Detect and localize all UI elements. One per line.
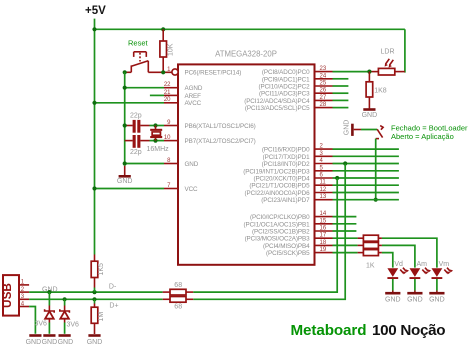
crystal Q1 16MHz (147, 126, 170, 153)
node junction crystal bottom (153, 139, 157, 143)
resistor 1K (c, PB5 to Vd) (358, 250, 382, 270)
op-amp U1 ATMEGA328-20P body (172, 50, 315, 265)
USB connector X1 (0, 275, 19, 316)
resistor 1M (91, 299, 105, 334)
U1 right pin numbers (320, 66, 327, 253)
svg-text:(PCI16/RXD)PD0: (PCI16/RXD)PD0 (262, 147, 310, 154)
svg-text:(PCI11/ADC3)PC3: (PCI11/ADC3)PC3 (259, 91, 310, 98)
node junction 10K top (161, 27, 165, 31)
svg-text:AREF: AREF (185, 93, 202, 100)
pin 10 XTAL2 wire (150, 140, 179, 142)
wire USB GND pin4 (29, 307, 35, 334)
svg-text:PB7(XTAL2/TOSC2/PCI7): PB7(XTAL2/TOSC2/PCI7) (185, 138, 256, 145)
ground symbol (bootloader switch, rotated) (344, 120, 361, 136)
ground symbol (1K8) (362, 110, 378, 120)
svg-text:GND: GND (26, 339, 42, 346)
svg-text:D+: D+ (109, 302, 118, 309)
svg-text:AVCC: AVCC (185, 100, 202, 107)
svg-text:Am: Am (417, 261, 428, 268)
pin 22 AGND wire (125, 87, 178, 89)
node junction 1K5/D- (92, 290, 96, 294)
svg-text:1K8: 1K8 (374, 88, 387, 95)
svg-text:Vd: Vd (394, 261, 403, 268)
resistor 1K8 (366, 72, 387, 109)
wire LDR right vertical x=404.9 (404, 29, 406, 72)
wire D- vertical x=337.2 (193, 178, 337, 292)
svg-text:(PCI8/ADC0)PC0: (PCI8/ADC0)PC0 (262, 69, 310, 76)
svg-text:(PCI0/ICP/CLKO)PB0: (PCI0/ICP/CLKO)PB0 (250, 214, 310, 221)
svg-text:VCC: VCC (185, 186, 199, 193)
svg-text:GND: GND (385, 297, 401, 304)
svg-text:(PCI22/AIN0OC0A)PD6: (PCI22/AIN0OC0A)PD6 (245, 190, 311, 197)
ground symbol (Am) (407, 291, 423, 304)
capacitor 22p C2 (125, 135, 150, 156)
svg-text:Metaboard: Metaboard (291, 322, 367, 339)
svg-text:68: 68 (174, 304, 182, 311)
pin 20 AVCC wire (95, 102, 179, 104)
wires PC1..PC5 stubs (333, 79, 349, 108)
svg-text:16MHz: 16MHz (147, 146, 170, 153)
svg-text:GND: GND (344, 120, 351, 136)
node junction LDR/1K8 (367, 70, 371, 74)
node junction PD7/boot (374, 198, 378, 202)
net label GND (usb) (42, 286, 58, 293)
wire 1K to Vm LED (382, 238, 437, 267)
svg-text:68: 68 (174, 282, 182, 289)
ground labels GNDGNDGND (26, 339, 74, 346)
resistor 10K (reset pull-up) (160, 29, 175, 72)
svg-text:AGND: AGND (185, 85, 203, 92)
svg-text:+5V: +5V (85, 5, 106, 17)
wire D+ vertical x=345.2 (193, 164, 345, 300)
resistor 1K5 (D- pullup) (91, 255, 105, 293)
svg-text:1K: 1K (366, 262, 375, 269)
node junction zener2/D+ (63, 297, 67, 301)
svg-text:22p: 22p (130, 112, 142, 119)
title 100 Nocao (372, 322, 445, 339)
svg-text:Reset: Reset (128, 39, 149, 48)
svg-text:D-: D- (109, 283, 117, 290)
node junction PD4/D- (335, 176, 339, 180)
resistor 1K (a, PB3 to Vm) (358, 235, 382, 241)
ground symbol (zener1) (43, 334, 55, 337)
title Metaboard (291, 322, 367, 339)
capacitor 22p C1 (125, 112, 150, 132)
pin 21 AREF stub (150, 94, 178, 96)
svg-text:USB: USB (0, 283, 14, 308)
LED Vm (432, 261, 454, 291)
svg-text:PC6(/RESET/PCI14): PC6(/RESET/PCI14) (185, 69, 242, 76)
LDR R2 (372, 49, 405, 76)
svg-text:10K: 10K (168, 43, 175, 56)
node junction AVCC (92, 101, 96, 105)
wire +5V top rail y=29.3 (95, 28, 405, 30)
right pins PD0..PD7 (315, 149, 333, 200)
svg-text:Vm: Vm (439, 261, 450, 268)
zener diode 3V6 (D2) (60, 299, 79, 334)
right pins PC0..PC5 red stubs (315, 72, 333, 108)
node junction C1 left (123, 123, 127, 127)
svg-text:1M: 1M (98, 312, 105, 322)
node junction reset/10K (161, 70, 165, 74)
svg-text:(PCI10/ADC2)PC2: (PCI10/ADC2)PC2 (259, 84, 311, 91)
svg-text:(PCI4/MISO)PB4: (PCI4/MISO)PB4 (263, 243, 310, 250)
LED Am (410, 261, 432, 291)
resistor 68 (D-) (163, 282, 194, 295)
svg-text:PB6(XTAL1/TOSC1/PCI6): PB6(XTAL1/TOSC1/PCI6) (185, 123, 256, 130)
net label D+ (109, 302, 118, 309)
svg-text:(PCI17/TXD)PD1: (PCI17/TXD)PD1 (263, 154, 310, 161)
svg-text:GND: GND (429, 297, 445, 304)
wire boot switch left (361, 129, 377, 131)
node junction PD2/D+ (343, 161, 347, 165)
svg-text:100 Noção: 100 Noção (372, 322, 445, 339)
U1 left pin numbers (164, 82, 171, 189)
zener diode 3V6 (D1) (35, 292, 55, 334)
svg-text:Aberto = Aplicação: Aberto = Aplicação (391, 132, 454, 141)
node junction reset/GND rail (123, 70, 127, 74)
svg-text:LDR: LDR (381, 49, 395, 56)
ground symbol (zener2) (59, 334, 71, 337)
wire PC0 to LDR (333, 71, 372, 73)
+5V supply label (85, 5, 106, 17)
svg-text:(PCI1/OC1A/OC1S)PB1: (PCI1/OC1A/OC1S)PB1 (244, 221, 311, 228)
svg-text:GND: GND (117, 178, 133, 185)
LED Vd (387, 261, 409, 291)
USB pin stubs (19, 280, 29, 308)
ground symbol (usb pin4) (29, 334, 41, 337)
ground symbol (Vm) (429, 291, 445, 304)
node junction VCC (92, 186, 96, 190)
switch S1 Reset label (128, 39, 149, 48)
svg-text:(PCI13/ADC5/SCL)PC5: (PCI13/ADC5/SCL)PC5 (245, 105, 310, 112)
svg-text:3V6: 3V6 (35, 321, 48, 328)
svg-text:GND: GND (407, 297, 423, 304)
switch S1 reset pushbutton (131, 52, 148, 73)
node junction zener1/D- (47, 290, 51, 294)
svg-text:3V6: 3V6 (67, 322, 80, 329)
svg-text:1K5: 1K5 (98, 263, 105, 276)
wire reset switch left to GND vertical (125, 71, 132, 73)
U1 left pin labels (185, 69, 256, 192)
svg-text:(PCI21/T1/OC0B)PD5: (PCI21/T1/OC0B)PD5 (249, 183, 310, 190)
svg-text:GND: GND (185, 161, 199, 168)
ground symbol (Vd) (385, 291, 401, 304)
svg-text:(PCI3/MOSI/OC2A)PB3: (PCI3/MOSI/OC2A)PB3 (245, 236, 311, 243)
pin 9 XTAL1 wire (150, 125, 179, 127)
wire D- line (29, 291, 163, 293)
wire D+ line (29, 298, 163, 300)
wire boot switch to PD7 (375, 139, 377, 200)
resistor 1K (b, PB4 to Am) (358, 242, 382, 248)
wires PB0..PB2 stubs (333, 217, 357, 231)
U1 pin 1 number (167, 67, 171, 73)
ground symbol (crystal caps) (117, 166, 133, 185)
svg-text:GND: GND (362, 112, 378, 119)
wire +5V vertical rail x=94.5 (94, 19, 96, 255)
svg-text:(PCI5/SCK)PB5: (PCI5/SCK)PB5 (266, 250, 310, 257)
pin 8 GND wire (125, 163, 178, 165)
wires PB3..PB5 to resistors (333, 238, 358, 252)
switch S2 bootloader (376, 126, 383, 139)
svg-text:22p: 22p (130, 149, 142, 156)
svg-text:(PCI18/INT0)PD2: (PCI18/INT0)PD2 (262, 161, 310, 168)
right pins PB0..PB5 (315, 217, 333, 253)
svg-text:(PCI9/ADC1)PC1: (PCI9/ADC1)PC1 (262, 76, 310, 83)
wire GND vertical x=124.7 (caps/AGND/reset) (124, 72, 126, 166)
node junction pin8 gnd (123, 161, 127, 165)
svg-text:GND: GND (58, 339, 74, 346)
wire 1K to Vd LED (382, 253, 393, 268)
wire reset net to pin 1 (148, 71, 172, 73)
pin 7 VCC wire (95, 188, 179, 190)
boot switch labels (391, 124, 468, 142)
net label D- (109, 283, 117, 290)
wires PD0..PD7 (333, 149, 399, 200)
node junction crystal top (153, 123, 157, 127)
svg-text:GND: GND (42, 339, 58, 346)
svg-text:ATMEGA328-20P: ATMEGA328-20P (215, 50, 277, 59)
node junction AGND (123, 86, 127, 90)
wire 1K to Am LED (382, 245, 415, 267)
svg-text:(PCI23/AIN1)PD7: (PCI23/AIN1)PD7 (261, 197, 310, 204)
U1 right pin labels (243, 69, 310, 257)
node junction +5V rail corner (92, 27, 96, 31)
ground symbol (1M) (87, 336, 103, 347)
svg-text:(PCI12/ADC4/SDA)PC4: (PCI12/ADC4/SDA)PC4 (244, 98, 310, 105)
node junction 1M/D+ (92, 297, 96, 301)
resistor 68 (D+) (163, 297, 194, 311)
svg-text:(PCI2/SS/OC1B)PB2: (PCI2/SS/OC1B)PB2 (252, 229, 310, 236)
svg-text:(PCI19/INT1/OC2B)PD3: (PCI19/INT1/OC2B)PD3 (243, 168, 310, 175)
svg-text:(PCI20/XCK/T0)PD4: (PCI20/XCK/T0)PD4 (253, 176, 310, 183)
svg-text:GND: GND (87, 339, 103, 346)
